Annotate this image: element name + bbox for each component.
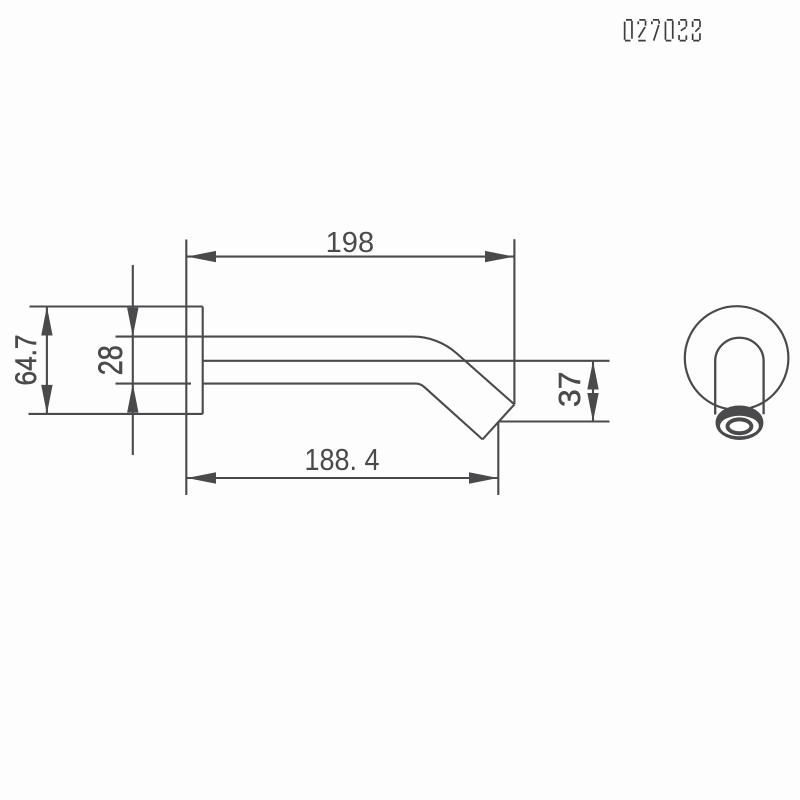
37 top arrowhead [587, 361, 598, 390]
198 right extension line [513, 239, 515, 404]
watermark digit 8 [693, 20, 700, 41]
flange top edge / 64.7 top extension line [30, 305, 203, 307]
front view tip outer rim (filled) [716, 406, 762, 439]
flange right edge [202, 307, 204, 414]
front view tube U-shape [715, 338, 763, 415]
front view outlet ellipse [728, 419, 752, 433]
188.4 right extension line [497, 422, 499, 496]
198 right arrowhead [485, 251, 514, 262]
watermark number 027038 (stencil style digits) [625, 20, 700, 41]
svg-text:64.7: 64.7 [10, 335, 43, 386]
svg-text:28: 28 [92, 345, 130, 375]
spout tube top edge with bend (28 top extension) [116, 337, 515, 405]
wall mounting line [185, 240, 187, 496]
svg-text:198: 198 [326, 227, 375, 259]
flange bottom edge / 64.7 bottom extension line [29, 413, 203, 415]
188.4 dimension line [186, 477, 498, 479]
watermark digit 0 [625, 20, 632, 41]
188.4 right arrowhead [469, 472, 498, 483]
centerline extension for 37 dimension [203, 360, 610, 362]
spout tip face [483, 404, 515, 439]
188.4 left arrowhead [187, 472, 216, 483]
64.7 top arrowhead [41, 307, 52, 336]
bottom extension line for 37 dimension [498, 420, 609, 422]
64.7 bottom arrowhead [41, 385, 52, 414]
front view flange circle [685, 306, 789, 410]
28 upper arrowhead (outside, pointing down) [127, 308, 138, 337]
watermark digit 3 [679, 20, 686, 41]
28 bottom extension line [116, 383, 192, 385]
svg-text:188. 4: 188. 4 [305, 442, 380, 477]
svg-text:37: 37 [552, 372, 587, 408]
28 dimension line [132, 265, 134, 455]
28 lower arrowhead (outside, pointing up) [127, 384, 138, 413]
spout tube bottom edge with bend [203, 384, 483, 440]
watermark digit 7 [652, 20, 659, 41]
37 bottom arrowhead [587, 393, 598, 422]
watermark digit 2 [638, 20, 645, 41]
watermark digit 0 [665, 20, 672, 41]
front view tip rim inner cut (white) [720, 416, 759, 437]
37 dimension line [592, 361, 594, 422]
198 left arrowhead [187, 251, 216, 262]
64.7 dimension line [46, 307, 48, 414]
198 dimension line [186, 256, 514, 258]
